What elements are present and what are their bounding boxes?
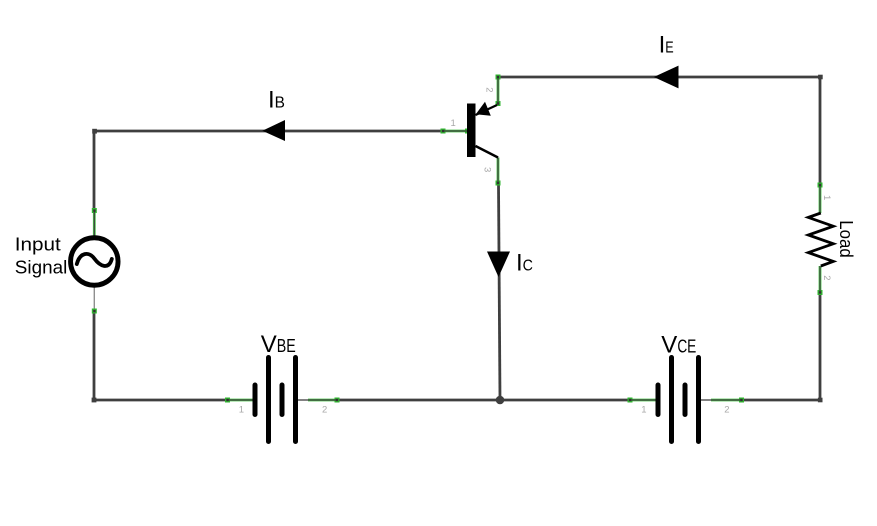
svg-text:VBE: VBE bbox=[261, 331, 296, 358]
svg-text:IB: IB bbox=[268, 87, 285, 114]
svg-text:VCE: VCE bbox=[661, 332, 696, 359]
svg-text:IE: IE bbox=[659, 31, 674, 58]
svg-text:1: 1 bbox=[821, 195, 832, 200]
svg-text:Input: Input bbox=[15, 234, 61, 254]
svg-text:2: 2 bbox=[724, 404, 729, 415]
svg-text:Signal: Signal bbox=[15, 258, 68, 278]
svg-text:3: 3 bbox=[482, 167, 493, 172]
svg-text:1: 1 bbox=[641, 404, 646, 415]
svg-text:1: 1 bbox=[451, 118, 456, 129]
svg-text:2: 2 bbox=[484, 87, 495, 92]
svg-text:1: 1 bbox=[239, 404, 244, 415]
svg-text:2: 2 bbox=[821, 275, 832, 280]
svg-text:Load: Load bbox=[836, 220, 857, 258]
svg-text:2: 2 bbox=[322, 404, 327, 415]
svg-text:IC: IC bbox=[516, 250, 533, 277]
